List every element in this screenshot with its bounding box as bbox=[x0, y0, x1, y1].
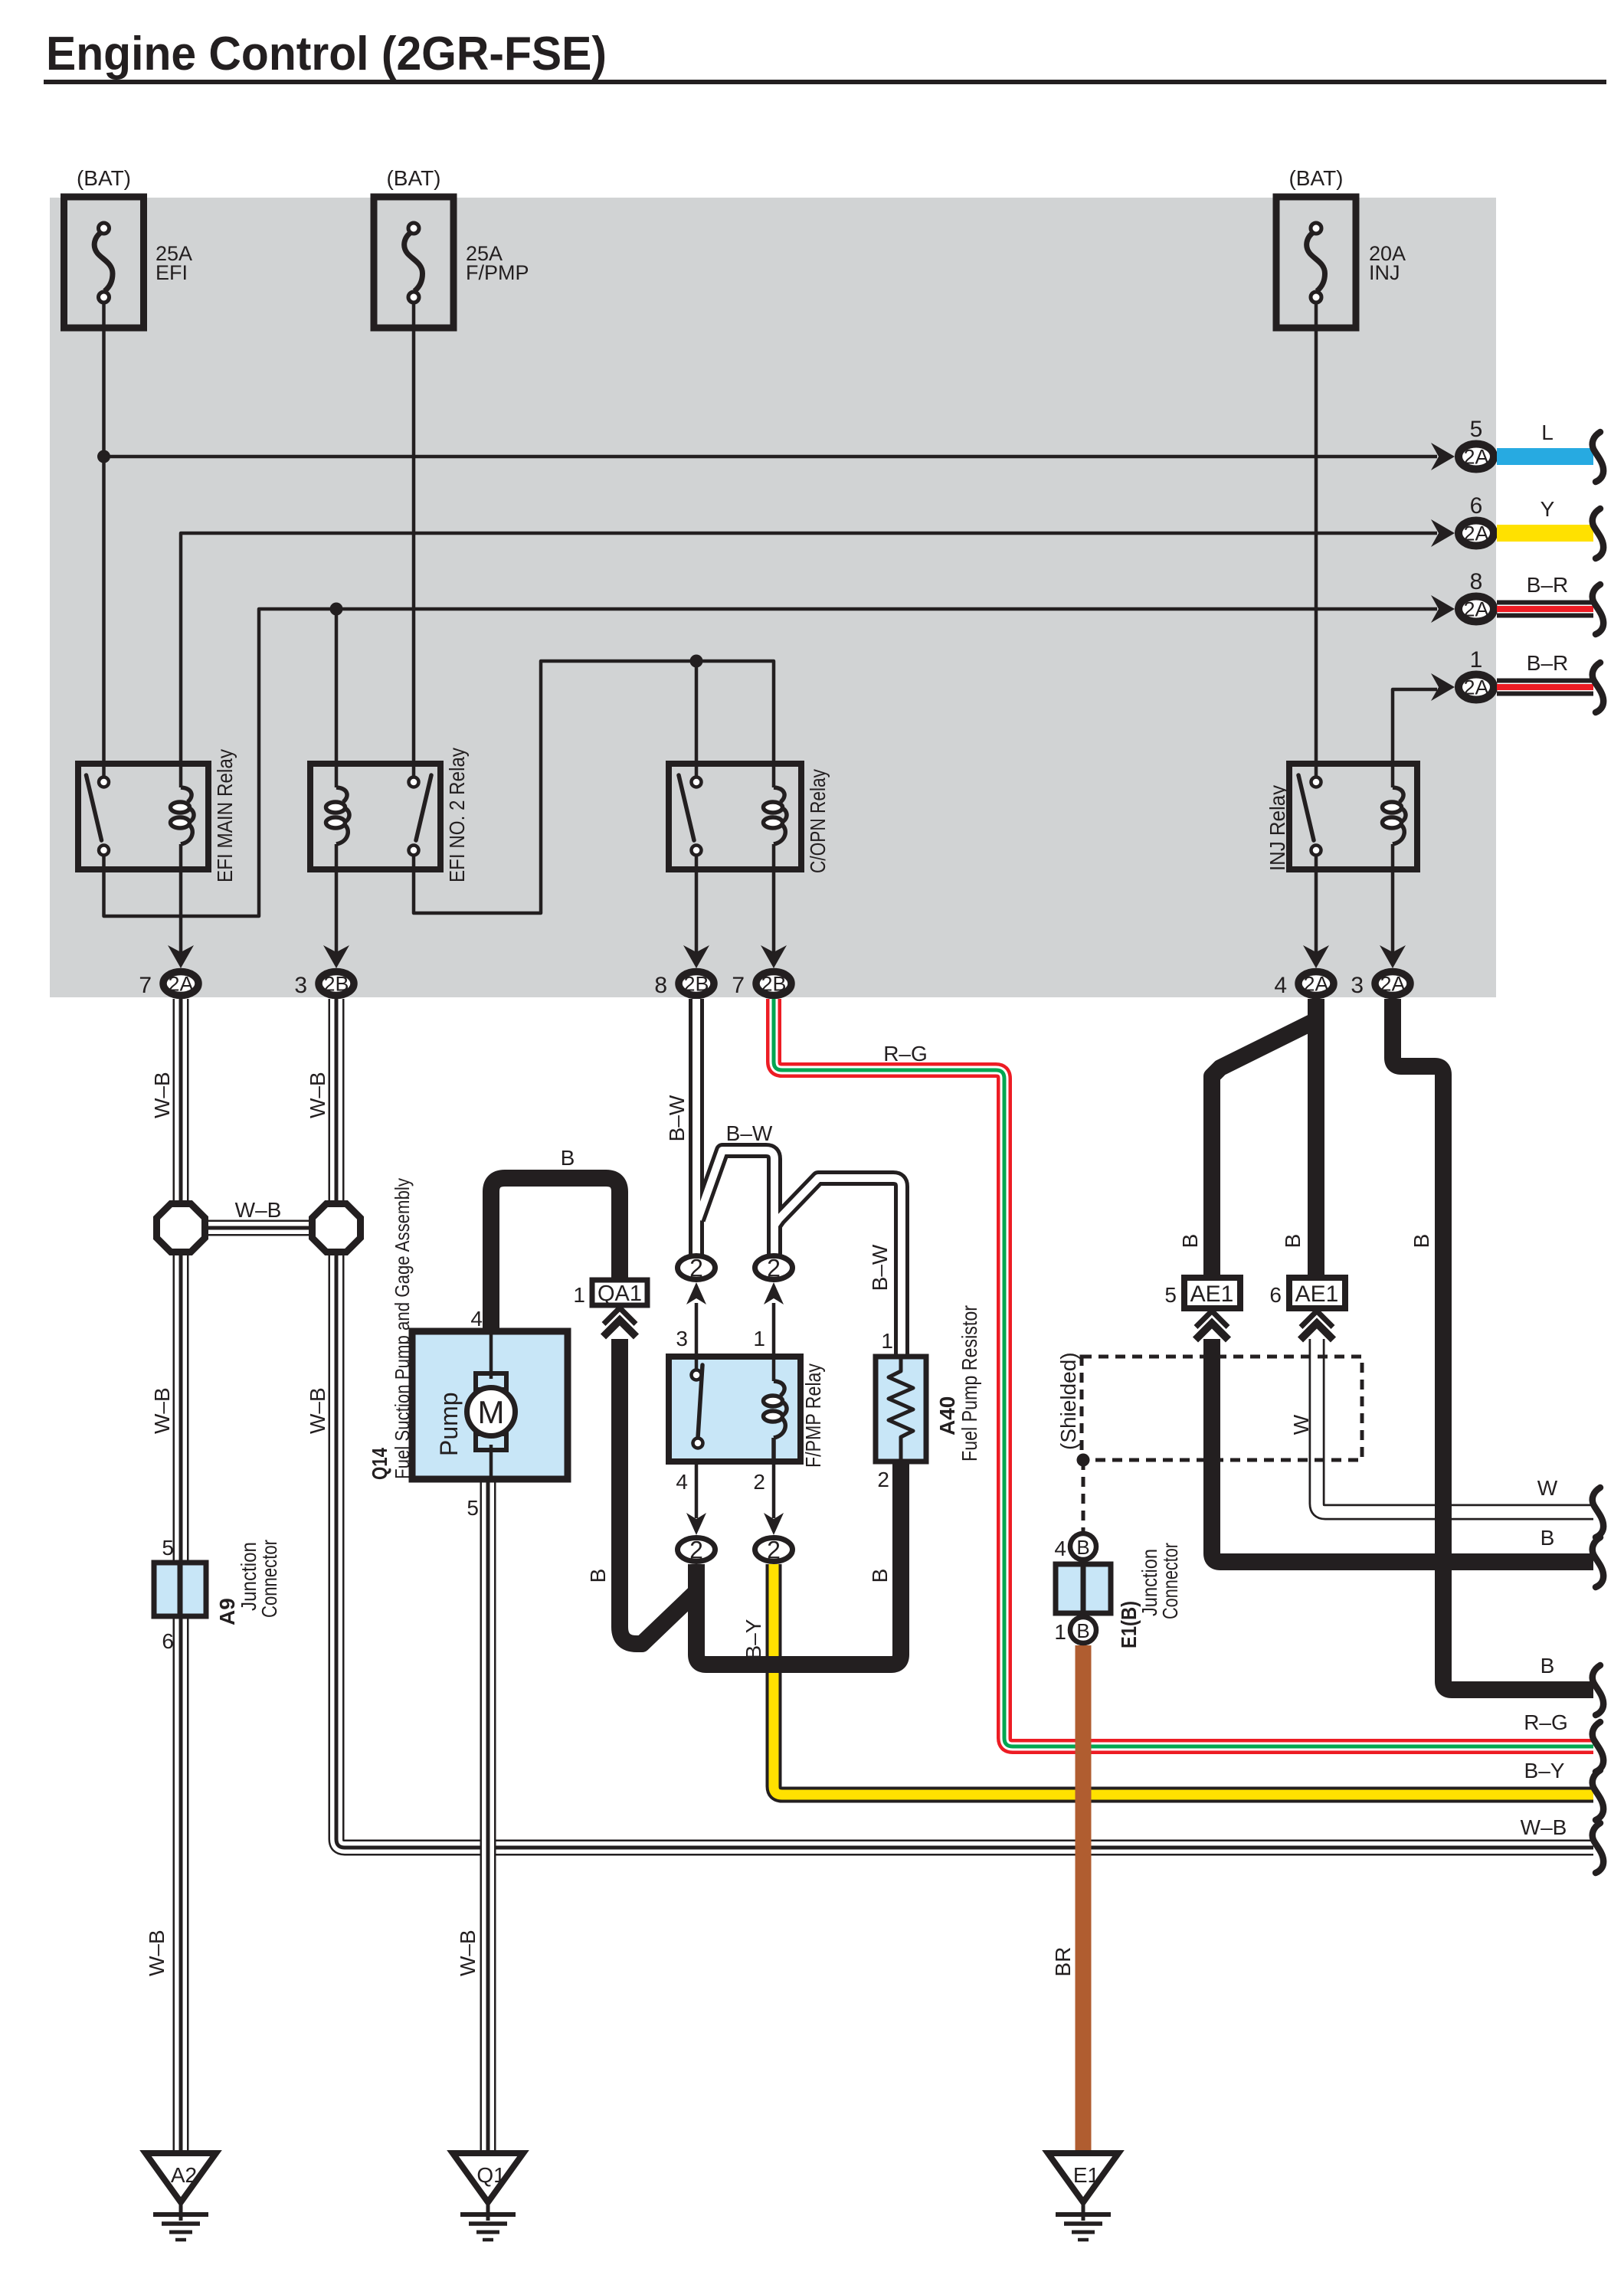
Q14 internal wire top bbox=[489, 1331, 493, 1379]
wire end 6 bbox=[1593, 509, 1603, 558]
wire W from AE1 no.6 to right edge bbox=[1317, 1339, 1593, 1512]
svg-text:F/PMP: F/PMP bbox=[466, 261, 529, 284]
svg-text:(BAT): (BAT) bbox=[386, 166, 440, 190]
relay C/OPN box bbox=[669, 764, 801, 869]
wire fuse INJ to INJ relay switch bbox=[1315, 302, 1318, 778]
svg-text:B: B bbox=[1281, 1234, 1305, 1249]
svg-text:2: 2 bbox=[877, 1468, 889, 1491]
inline connector 2 (pin1) arrow bbox=[764, 1282, 784, 1304]
relay EFI MAIN coil bbox=[181, 787, 192, 802]
junction connector A9 bbox=[154, 1563, 206, 1616]
Q14 motor M bbox=[467, 1388, 516, 1436]
connector 8 2B arrow bbox=[683, 945, 709, 968]
ground Q1 bbox=[453, 2153, 523, 2202]
svg-text:2A: 2A bbox=[1463, 446, 1488, 469]
svg-text:Q1: Q1 bbox=[476, 2163, 505, 2187]
octagon joint right bbox=[313, 1204, 361, 1252]
Q14 box bbox=[412, 1331, 568, 1479]
svg-text:2: 2 bbox=[753, 1470, 765, 1494]
relay F/PMP contact bbox=[698, 1365, 702, 1438]
svg-text:B–Y: B–Y bbox=[1524, 1759, 1565, 1782]
svg-text:2B: 2B bbox=[683, 973, 709, 996]
connector 6 2A bbox=[1459, 521, 1494, 546]
svg-text:B: B bbox=[1178, 1234, 1202, 1249]
svg-text:4: 4 bbox=[1054, 1537, 1066, 1560]
relay C/OPN coil bbox=[774, 787, 784, 802]
svg-text:B: B bbox=[1541, 1526, 1555, 1550]
svg-text:B–W: B–W bbox=[665, 1095, 689, 1141]
svg-text:A40: A40 bbox=[935, 1396, 959, 1435]
wire W-B from Q14 pin 5 to ground Q1 bbox=[480, 1479, 496, 2153]
svg-text:2A: 2A bbox=[1303, 973, 1328, 996]
svg-text:R–G: R–G bbox=[1524, 1710, 1568, 1734]
svg-text:W–B: W–B bbox=[150, 1072, 174, 1118]
junction connector E1(B) box bbox=[1056, 1564, 1111, 1613]
svg-text:L: L bbox=[1541, 421, 1554, 444]
ground A2 bbox=[146, 2153, 216, 2202]
wire end R-G bbox=[1593, 1722, 1603, 1772]
node shield ground bbox=[1077, 1454, 1090, 1467]
title underline bbox=[44, 80, 1606, 84]
svg-text:EFI MAIN Relay: EFI MAIN Relay bbox=[213, 749, 237, 882]
wire C/OPN coil to 7 2B bbox=[772, 844, 776, 954]
wire B from 3 2A to right edge bbox=[1393, 999, 1593, 1690]
wire B-W from 8 2B to inline connector 2 bbox=[689, 999, 704, 1255]
svg-text:5: 5 bbox=[1470, 417, 1483, 442]
shield box (dashed) bbox=[1082, 1357, 1362, 1460]
relay INJ box bbox=[1289, 764, 1417, 869]
wire EFI NO.2 coil to 3 2B bbox=[335, 844, 339, 954]
connector 1 2A arrow bbox=[1431, 673, 1455, 701]
connector 7 2B arrow bbox=[761, 945, 787, 968]
svg-text:W–B: W–B bbox=[1521, 1815, 1567, 1839]
connector 3 2B arrow bbox=[323, 945, 349, 968]
wire F/PMP pin 3 bbox=[695, 1303, 699, 1371]
wire INJ coil to 3 2A bbox=[1391, 844, 1395, 954]
wire W-B from 3 2B via junction connector to right edge bbox=[336, 999, 1593, 1848]
wire B below AE1 no.5 to right edge bbox=[1212, 1339, 1593, 1562]
fuse 20A INJ bbox=[1276, 197, 1356, 328]
svg-text:QA1: QA1 bbox=[598, 1282, 642, 1306]
svg-text:B: B bbox=[586, 1569, 610, 1583]
svg-text:W–B: W–B bbox=[150, 1387, 174, 1434]
inline connector 2 (pin4) arrow bbox=[686, 1513, 706, 1535]
svg-text:1: 1 bbox=[1054, 1620, 1066, 1644]
connector AE1 no.5 chevrons bbox=[1196, 1311, 1228, 1327]
connector 4 2A arrow bbox=[1303, 945, 1329, 968]
wire C/OPN switch to 8 2B bbox=[695, 855, 699, 954]
svg-text:2A: 2A bbox=[1463, 598, 1488, 621]
svg-text:W–B: W–B bbox=[306, 1072, 329, 1118]
svg-text:F/PMP Relay: F/PMP Relay bbox=[801, 1363, 825, 1468]
wire EFI MAIN switch out to row 8 2A bbox=[104, 609, 1438, 916]
wire B-R (black-red) bbox=[1497, 601, 1593, 605]
relay INJ contact bbox=[1298, 775, 1314, 840]
connector 7 2A arrow bbox=[168, 945, 194, 968]
svg-text:B–W: B–W bbox=[726, 1121, 773, 1145]
wire end B lower bbox=[1593, 1665, 1603, 1715]
svg-text:BR: BR bbox=[1051, 1947, 1075, 1977]
svg-text:W–B: W–B bbox=[306, 1387, 329, 1434]
relay EFI NO.2 coil bbox=[336, 787, 347, 802]
svg-text:E1: E1 bbox=[1073, 2163, 1099, 2187]
svg-text:B–R: B–R bbox=[1527, 573, 1568, 597]
svg-text:Fuel Suction Pump and Gage Ass: Fuel Suction Pump and Gage Assembly bbox=[391, 1178, 414, 1479]
svg-text:Pump: Pump bbox=[435, 1392, 463, 1456]
junction connector E1(B) pin 4 bbox=[1070, 1534, 1096, 1560]
svg-text:1: 1 bbox=[753, 1327, 765, 1350]
svg-text:W–B: W–B bbox=[456, 1930, 480, 1976]
wire B QA1 to F/PMP relay pin 4 node bbox=[620, 1339, 696, 1644]
svg-text:B: B bbox=[1541, 1654, 1555, 1678]
relay EFI MAIN contact bbox=[87, 775, 102, 840]
fuse 25A F/PMP bbox=[374, 197, 453, 328]
connector QA1 bbox=[592, 1280, 647, 1305]
wire F/PMP pin 2 bbox=[772, 1462, 776, 1518]
Q14 motor brush top bbox=[476, 1373, 506, 1390]
junction connector E1(B) pin 1 bbox=[1070, 1617, 1096, 1643]
inline connector 2 (pin4) bbox=[678, 1538, 715, 1562]
svg-text:6: 6 bbox=[1269, 1283, 1282, 1307]
svg-text:1: 1 bbox=[1470, 647, 1483, 673]
svg-text:2: 2 bbox=[689, 1537, 703, 1564]
ground E1 bbox=[1048, 2153, 1118, 2202]
svg-text:INJ: INJ bbox=[1369, 261, 1400, 284]
Q14 motor brush bottom bbox=[476, 1434, 506, 1450]
svg-text:A2: A2 bbox=[171, 2163, 197, 2187]
inline connector 2 (pin3) bbox=[678, 1256, 715, 1280]
svg-text:M: M bbox=[478, 1394, 505, 1430]
svg-text:EFI: EFI bbox=[156, 261, 188, 284]
svg-text:8: 8 bbox=[1470, 569, 1483, 594]
wire BR from E1(B) to ground E1 bbox=[1076, 1645, 1092, 2153]
resistor A40 element bbox=[889, 1357, 913, 1462]
svg-text:5: 5 bbox=[162, 1536, 174, 1560]
wire end 8 bbox=[1593, 584, 1603, 634]
svg-text:6: 6 bbox=[1470, 493, 1483, 519]
svg-text:2: 2 bbox=[767, 1537, 781, 1564]
junction block (gray) bbox=[50, 198, 1496, 997]
wire end B upper bbox=[1593, 1537, 1603, 1587]
svg-text:AE1: AE1 bbox=[1190, 1282, 1234, 1307]
svg-text:A9: A9 bbox=[215, 1598, 239, 1625]
inline connector 2 (pin2) bbox=[755, 1538, 793, 1562]
svg-text:INJ Relay: INJ Relay bbox=[1265, 785, 1289, 871]
connector 8 2A arrow bbox=[1431, 595, 1455, 623]
connector 5 2A arrow bbox=[1431, 443, 1455, 470]
connector 6 2A arrow bbox=[1431, 519, 1455, 547]
wire F/PMP pin 1 bbox=[772, 1303, 776, 1381]
svg-text:7: 7 bbox=[139, 973, 152, 998]
wire row to connector 5 2A (L) bbox=[104, 455, 1438, 459]
connector 8 2A bbox=[1459, 597, 1494, 622]
svg-text:Connector: Connector bbox=[257, 1540, 281, 1618]
wire L (blue) bbox=[1497, 448, 1593, 465]
connector 7 2A bbox=[163, 972, 198, 996]
relay INJ coil bbox=[1393, 787, 1403, 802]
connector 7 2B bbox=[756, 972, 791, 996]
relay C/OPN contact bbox=[679, 775, 694, 840]
svg-text:Fuel Pump Resistor: Fuel Pump Resistor bbox=[958, 1305, 981, 1462]
wire end 1 bbox=[1593, 663, 1603, 712]
wire B from 4 2A to AE1 no.5 bbox=[1212, 999, 1316, 1280]
svg-text:2A: 2A bbox=[168, 973, 193, 996]
Q14 internal wire bottom bbox=[489, 1445, 493, 1479]
wire B from 4 2A to AE1 no.6 bbox=[1308, 999, 1324, 1280]
svg-text:B: B bbox=[1076, 1536, 1089, 1559]
wire B-R (black-red) bbox=[1497, 679, 1593, 683]
inline connector 2 (pin2) arrow bbox=[764, 1513, 784, 1535]
wire end 5 bbox=[1593, 432, 1603, 482]
wire shield to E1(B) bbox=[1082, 1460, 1085, 1531]
svg-text:2A: 2A bbox=[1380, 973, 1405, 996]
svg-text:C/OPN Relay: C/OPN Relay bbox=[806, 769, 830, 873]
wire fuse F/PMP to EFI NO.2 switch bbox=[412, 302, 416, 778]
relay EFI MAIN box bbox=[78, 764, 208, 869]
wire R-G from 7 2B to right edge bbox=[774, 999, 1593, 1746]
inline connector 2 (pin3) arrow bbox=[686, 1282, 706, 1304]
relay F/PMP box bbox=[669, 1357, 801, 1462]
connector 3 2A bbox=[1375, 972, 1410, 996]
svg-text:3: 3 bbox=[294, 973, 307, 998]
relay EFI NO.2 contact bbox=[416, 775, 431, 840]
svg-text:B: B bbox=[1410, 1234, 1433, 1249]
svg-text:4: 4 bbox=[470, 1307, 483, 1331]
wire B relay pin4 node to resistor pin 2 bbox=[696, 1462, 901, 1665]
svg-text:2A: 2A bbox=[1463, 676, 1488, 699]
connector 4 2A bbox=[1298, 972, 1334, 996]
wire Y (yellow) bbox=[1497, 525, 1593, 542]
wire INJ coil to connector 1 2A bbox=[1393, 689, 1437, 787]
svg-text:8: 8 bbox=[654, 973, 667, 998]
wire junction to C/OPN switch bbox=[695, 661, 699, 778]
wire B fuel pump to QA1 bbox=[491, 1178, 620, 1339]
octagon joint left bbox=[157, 1204, 205, 1252]
svg-text:Y: Y bbox=[1541, 497, 1555, 521]
svg-text:1: 1 bbox=[881, 1329, 893, 1353]
wire end W bbox=[1593, 1488, 1603, 1537]
connector 3 2B bbox=[319, 972, 354, 996]
connector AE1 no.6 chevrons bbox=[1301, 1311, 1333, 1327]
node junction on EFI feed bbox=[97, 450, 110, 463]
wire end B-Y bbox=[1593, 1770, 1603, 1820]
svg-text:2: 2 bbox=[689, 1255, 703, 1282]
wire fuse EFI to EFI MAIN relay switch bbox=[102, 302, 106, 778]
svg-text:B–R: B–R bbox=[1527, 651, 1568, 675]
svg-text:2B: 2B bbox=[323, 973, 349, 996]
connector QA1 chevrons bbox=[604, 1308, 636, 1324]
svg-text:5: 5 bbox=[467, 1496, 479, 1520]
svg-text:B–W: B–W bbox=[868, 1244, 892, 1291]
wire end W-B bbox=[1593, 1823, 1603, 1873]
svg-text:1: 1 bbox=[573, 1283, 585, 1307]
svg-text:B: B bbox=[868, 1569, 892, 1583]
fuse 25A EFI bbox=[64, 197, 144, 328]
svg-text:Connector: Connector bbox=[1158, 1543, 1182, 1619]
svg-text:7: 7 bbox=[732, 973, 745, 998]
svg-text:(BAT): (BAT) bbox=[77, 166, 131, 190]
relay F/PMP coil bbox=[774, 1381, 784, 1396]
svg-text:4: 4 bbox=[676, 1470, 688, 1494]
wire EFI MAIN coil to 7 2A bbox=[179, 844, 183, 954]
svg-text:3: 3 bbox=[1351, 973, 1364, 998]
wire B-Y from F/PMP relay to right edge bbox=[774, 1564, 1593, 1795]
svg-text:(Shielded): (Shielded) bbox=[1056, 1352, 1080, 1450]
wire W-B from 7 2A to ground A2 bbox=[173, 999, 189, 2153]
svg-text:W–B: W–B bbox=[235, 1198, 282, 1222]
wire W-B between octagon joints bbox=[199, 1220, 318, 1236]
connector 8 2B bbox=[679, 972, 714, 996]
svg-text:R–G: R–G bbox=[883, 1042, 928, 1065]
connector 3 2A arrow bbox=[1380, 945, 1406, 968]
connector 1 2A bbox=[1459, 675, 1494, 700]
svg-text:Q14: Q14 bbox=[368, 1448, 391, 1480]
svg-text:B: B bbox=[1076, 1619, 1089, 1642]
wire EFI MAIN coil to connector 6 2A (Y) bbox=[181, 533, 1437, 787]
wire F/PMP pin 4 bbox=[695, 1462, 699, 1518]
svg-text:W: W bbox=[1289, 1414, 1313, 1435]
wire EFI NO.2 switch out to C/OPN relay bbox=[414, 661, 774, 913]
svg-text:6: 6 bbox=[162, 1629, 174, 1653]
svg-text:2: 2 bbox=[767, 1255, 781, 1282]
svg-text:5: 5 bbox=[1164, 1283, 1177, 1307]
svg-text:W: W bbox=[1537, 1476, 1558, 1500]
svg-text:(BAT): (BAT) bbox=[1288, 166, 1343, 190]
svg-text:B–Y: B–Y bbox=[742, 1619, 765, 1659]
inline connector 2 (pin1) bbox=[755, 1256, 793, 1280]
svg-text:2A: 2A bbox=[1463, 522, 1488, 545]
node junction to EFI NO.2 coil bbox=[330, 603, 343, 616]
wire INJ switch to 4 2A bbox=[1315, 855, 1318, 954]
svg-text:W–B: W–B bbox=[145, 1930, 169, 1976]
svg-text:B: B bbox=[561, 1146, 575, 1170]
svg-text:EFI NO. 2 Relay: EFI NO. 2 Relay bbox=[445, 748, 469, 882]
svg-text:AE1: AE1 bbox=[1295, 1282, 1339, 1307]
svg-text:Engine Control (2GR-FSE): Engine Control (2GR-FSE) bbox=[46, 28, 607, 80]
node junction to C/OPN switch bbox=[690, 655, 703, 668]
svg-text:4: 4 bbox=[1274, 973, 1287, 998]
connector 5 2A bbox=[1459, 444, 1494, 470]
connector AE1 no.6 bbox=[1289, 1278, 1345, 1308]
svg-text:2B: 2B bbox=[761, 973, 786, 996]
resistor A40 box bbox=[876, 1357, 926, 1462]
connector AE1 no.5 bbox=[1184, 1278, 1240, 1308]
svg-text:3: 3 bbox=[676, 1327, 688, 1350]
relay EFI NO.2 box bbox=[310, 764, 440, 869]
wire junction to EFI NO.2 coil bbox=[335, 609, 339, 787]
